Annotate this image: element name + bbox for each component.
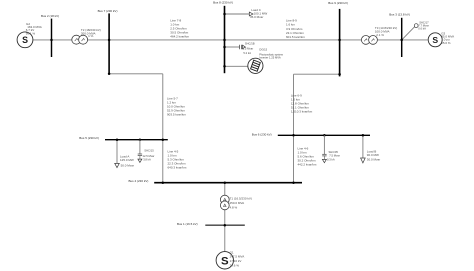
svg-text:Bus 1 (16.5 kV): Bus 1 (16.5 kV) [177,222,198,226]
svg-text:Bus 8 (230 kV): Bus 8 (230 kV) [213,0,233,4]
svg-text:0.6 kA: 0.6 kA [418,27,426,31]
svg-text:30.0 Mvar: 30.0 Mvar [367,157,380,161]
svg-text:SHC/1B: SHC/1B [245,42,255,46]
svg-text:Bus 2 (18 kV): Bus 2 (18 kV) [41,14,59,18]
svg-text:601.5 kvar/km: 601.5 kvar/km [286,35,305,39]
svg-text:Bus 6 (230 kV): Bus 6 (230 kV) [252,132,272,136]
svg-text:25.0 %: 25.0 % [441,41,451,45]
svg-text:Bus 7 (230 kV): Bus 7 (230 kV) [98,9,118,13]
svg-text:Bus 5 (230 kV): Bus 5 (230 kV) [79,136,99,140]
svg-text:12.5 Mvar: 12.5 Mvar [143,154,155,158]
svg-text:SHC/15: SHC/15 [144,149,154,153]
svg-text:0.3 kA: 0.3 kA [327,157,335,161]
svg-text:35.0 Mvar: 35.0 Mvar [250,15,263,19]
svg-text:903.5 kvar/km: 903.5 kvar/km [167,112,186,116]
svg-text:99.1 %: 99.1 % [26,31,36,35]
svg-text:50.0 Mvar: 50.0 Mvar [121,164,134,168]
svg-text:4.8 %: 4.8 % [230,205,238,209]
svg-text:Bus 4 (230 kV): Bus 4 (230 kV) [129,179,149,183]
svg-text:S: S [432,35,438,45]
svg-text:Inverter 1.25 MVA: Inverter 1.25 MVA [259,56,281,60]
svg-text:3.8 kA: 3.8 kA [143,158,151,162]
svg-text:464.2 kvar/km: 464.2 kvar/km [170,35,189,39]
svg-text:S: S [221,255,229,267]
svg-text:5.2 kA: 5.2 kA [243,51,251,55]
svg-text:74.6 %: 74.6 % [230,263,240,267]
svg-text:S: S [22,35,28,45]
svg-text:DG/15: DG/15 [259,48,267,52]
svg-text:Bus 9 (230 kV): Bus 9 (230 kV) [328,1,348,5]
svg-text:2.1 %: 2.1 % [376,33,384,37]
svg-text:T1 (16.5/230 kV): T1 (16.5/230 kV) [230,197,252,201]
svg-text:Bus 3 (13.8 kV): Bus 3 (13.8 kV) [389,12,410,16]
svg-text:125.0 MW: 125.0 MW [120,158,134,162]
svg-text:442.2 kvar/km: 442.2 kvar/km [298,162,317,166]
svg-text:250.0 MVA: 250.0 MVA [230,201,245,205]
svg-text:1,510.3 kvar/km: 1,510.3 kvar/km [291,109,313,113]
svg-text:Photovoltaic system: Photovoltaic system [259,52,284,56]
svg-text:7.5 Mvar: 7.5 Mvar [329,154,340,158]
svg-text:2.5 Mvar: 2.5 Mvar [243,47,254,51]
svg-text:1 %: 1 % [88,34,94,38]
svg-text:SHC/05: SHC/05 [329,150,339,154]
svg-text:640.3 kvar/km: 640.3 kvar/km [168,165,187,169]
